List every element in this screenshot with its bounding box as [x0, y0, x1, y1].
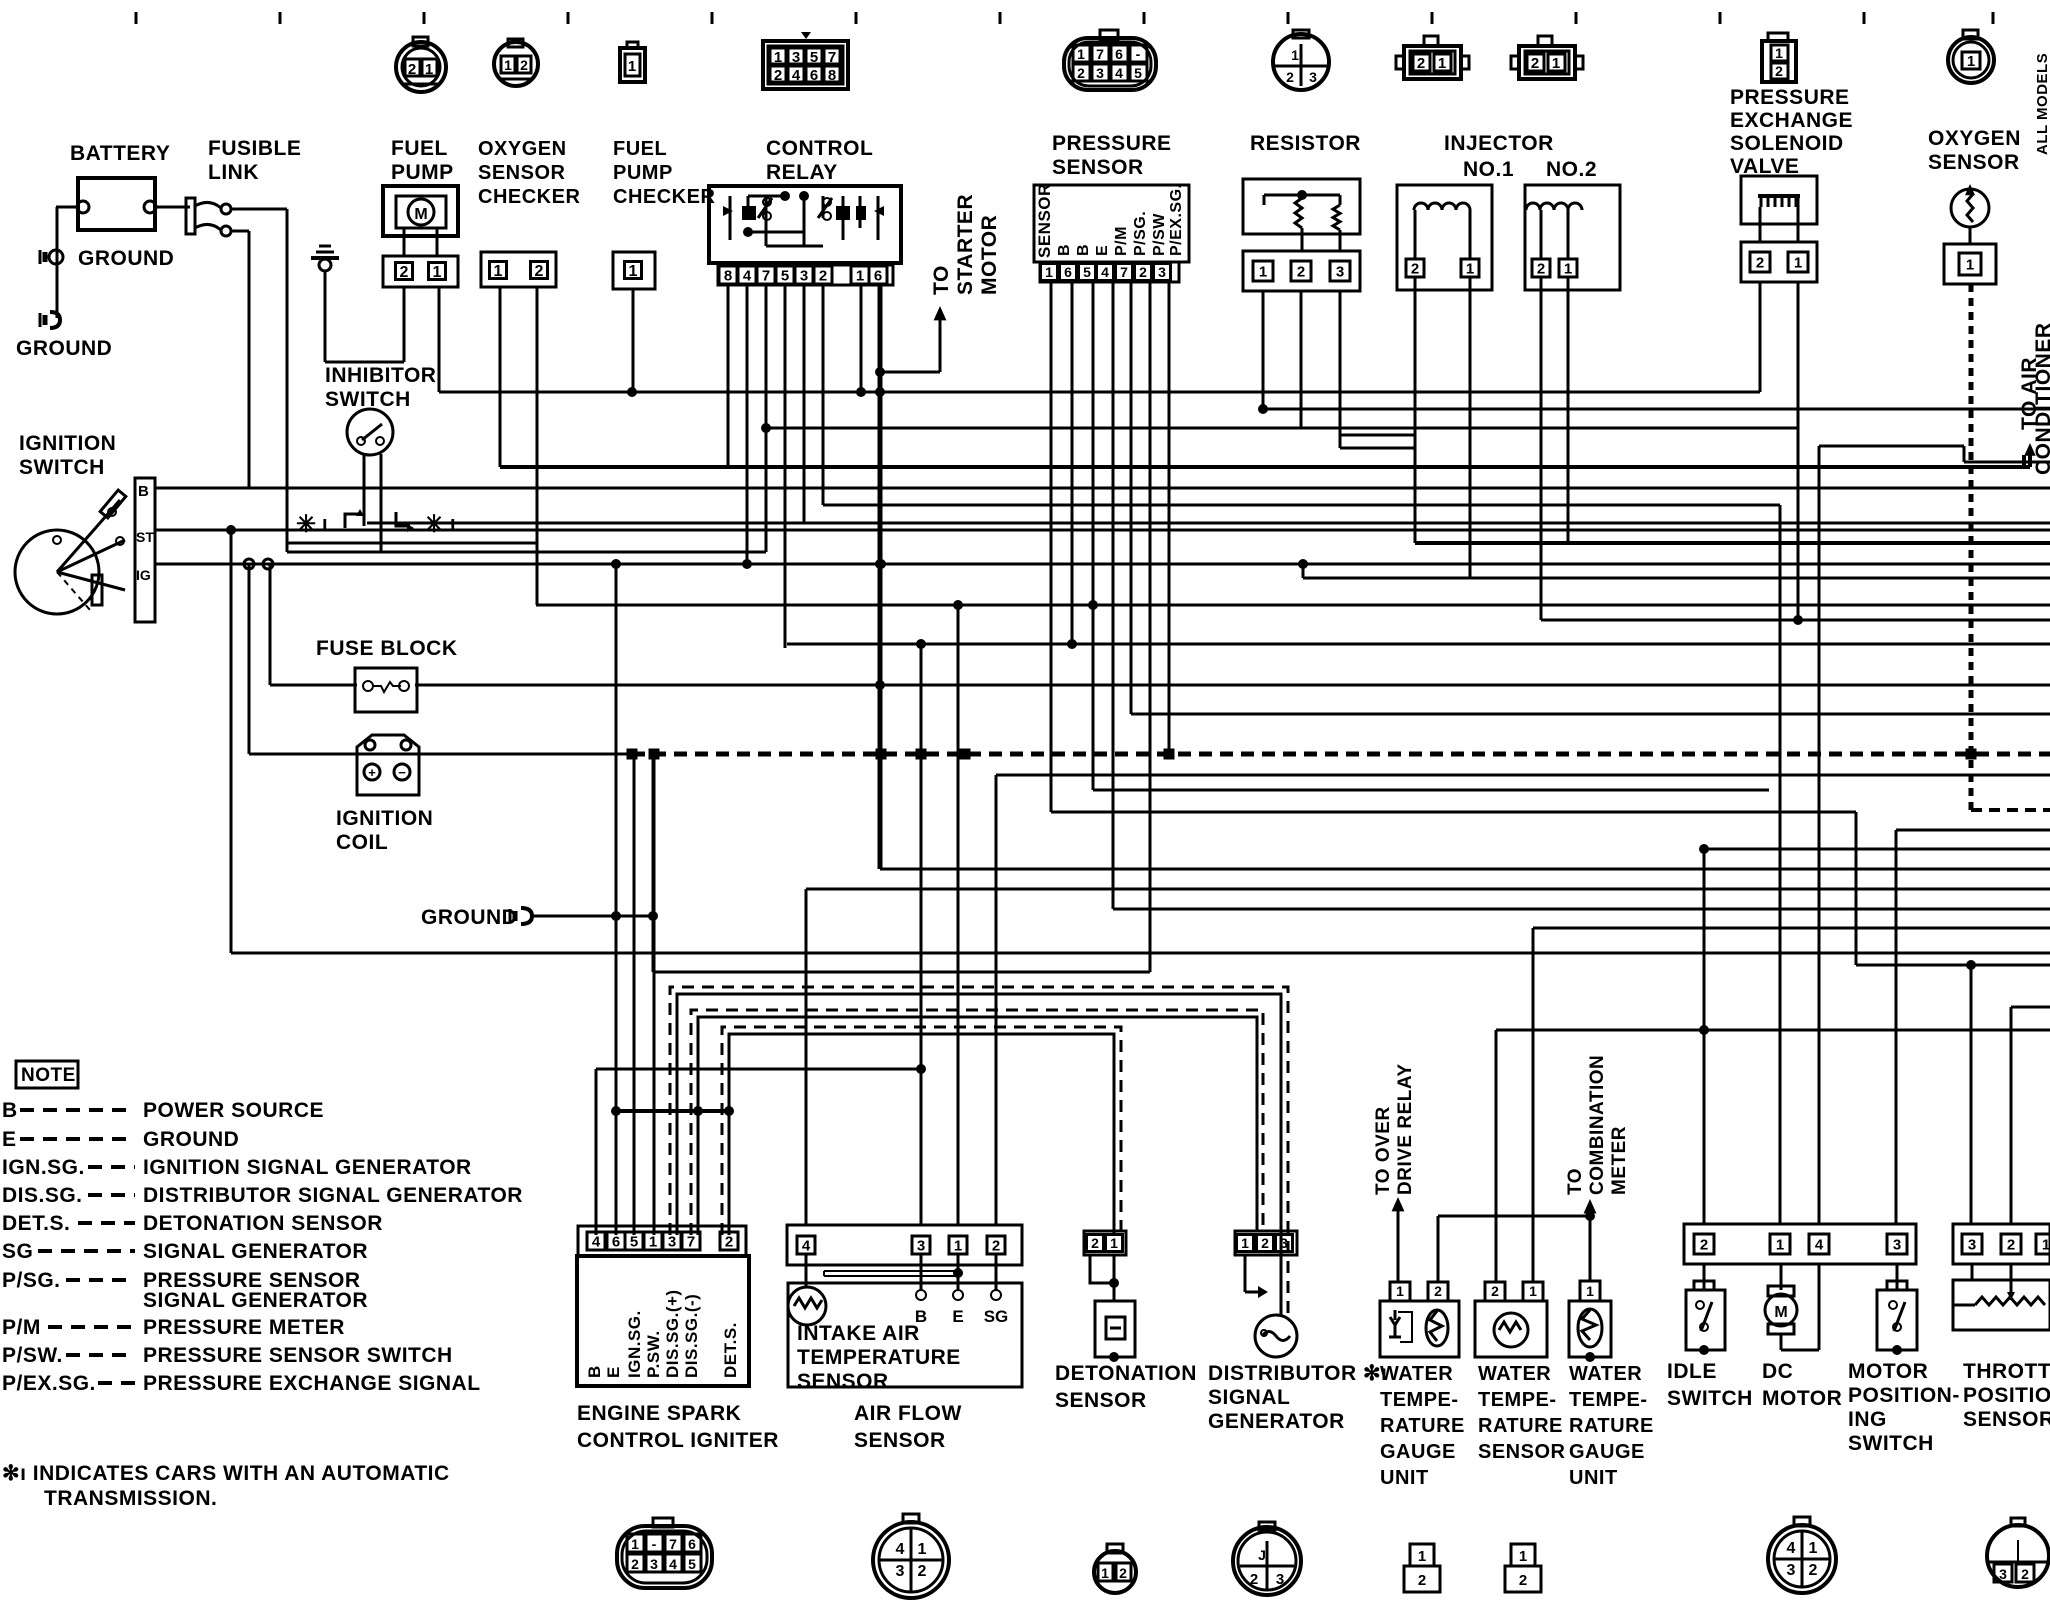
svg-text:SIGNAL: SIGNAL: [1208, 1386, 1290, 1409]
svg-text:3: 3: [1787, 1562, 1796, 1579]
svg-text:1: 1: [433, 264, 442, 281]
svg-text:6: 6: [612, 1233, 620, 1250]
svg-text:2: 2: [400, 264, 409, 281]
svg-text:1: 1: [1438, 55, 1446, 72]
svg-text:AIR FLOW: AIR FLOW: [854, 1402, 962, 1425]
svg-text:GROUND: GROUND: [16, 337, 112, 360]
svg-text:E: E: [2, 1128, 17, 1151]
svg-text:B: B: [585, 1365, 604, 1378]
svg-text:DIS.SG.(+): DIS.SG.(+): [663, 1289, 682, 1378]
svg-text:SENSOR: SENSOR: [1928, 151, 2020, 174]
svg-text:1: 1: [1259, 263, 1267, 280]
svg-text:2: 2: [1809, 1562, 1818, 1579]
svg-text:1: 1: [1396, 1283, 1404, 1299]
svg-text:+: +: [368, 765, 376, 780]
svg-text:✳: ✳: [424, 511, 444, 538]
svg-text:3: 3: [1158, 264, 1166, 280]
svg-text:P/EX.SG.: P/EX.SG.: [1168, 184, 1185, 256]
svg-text:1: 1: [1291, 47, 1299, 63]
svg-text:TO OVER: TO OVER: [1373, 1106, 1394, 1195]
svg-text:RATURE: RATURE: [1478, 1415, 1563, 1437]
svg-text:6: 6: [810, 67, 818, 84]
svg-text:GENERATOR: GENERATOR: [1208, 1410, 1345, 1433]
svg-text:✳: ✳: [296, 511, 316, 538]
svg-text:6: 6: [688, 1536, 696, 1552]
svg-text:DC: DC: [1762, 1360, 1793, 1383]
svg-text:TEMPE-: TEMPE-: [1478, 1389, 1557, 1411]
svg-text:SENSOR: SENSOR: [1478, 1441, 1566, 1463]
svg-text:TRANSMISSION.: TRANSMISSION.: [44, 1487, 217, 1510]
svg-text:INTAKE AIR: INTAKE AIR: [797, 1322, 920, 1345]
svg-text:2: 2: [1417, 55, 1425, 72]
svg-text:1: 1: [1564, 260, 1572, 277]
svg-text:4: 4: [802, 1237, 811, 1254]
svg-text:NO.1: NO.1: [1463, 158, 1514, 181]
svg-text:8: 8: [724, 267, 732, 284]
svg-text:TEMPE-: TEMPE-: [1380, 1389, 1459, 1411]
svg-text:ı: ı: [322, 513, 328, 535]
svg-text:SENSOR: SENSOR: [854, 1429, 946, 1452]
svg-text:-: -: [652, 1536, 657, 1552]
svg-text:ING: ING: [1848, 1408, 1887, 1431]
svg-text:DIS.SG.(-): DIS.SG.(-): [682, 1294, 701, 1378]
svg-text:1: 1: [1552, 55, 1560, 72]
svg-text:SWITCH: SWITCH: [325, 388, 411, 411]
svg-text:3: 3: [1096, 65, 1104, 81]
svg-text:INJECTOR: INJECTOR: [1444, 132, 1554, 155]
svg-text:SG: SG: [984, 1307, 1009, 1326]
svg-text:1: 1: [2042, 1236, 2050, 1253]
svg-text:1: 1: [1101, 1565, 1109, 1581]
svg-text:UNIT: UNIT: [1380, 1467, 1429, 1489]
svg-text:ı: ı: [450, 513, 456, 535]
svg-text:2: 2: [1286, 69, 1294, 85]
svg-text:WATER: WATER: [1380, 1363, 1453, 1385]
svg-text:2: 2: [1434, 1283, 1442, 1299]
svg-text:2: 2: [1091, 1235, 1099, 1251]
svg-text:J: J: [1258, 1547, 1266, 1563]
svg-text:IG: IG: [136, 567, 151, 583]
svg-text:2: 2: [819, 267, 827, 284]
svg-text:1: 1: [1077, 46, 1085, 62]
svg-text:2: 2: [1250, 1571, 1258, 1588]
svg-text:SOLENOID: SOLENOID: [1730, 132, 1844, 155]
svg-text:P/SW: P/SW: [1151, 213, 1168, 256]
svg-text:6: 6: [874, 267, 882, 284]
svg-text:POWER SOURCE: POWER SOURCE: [143, 1099, 324, 1122]
svg-text:FUSIBLE: FUSIBLE: [208, 137, 301, 160]
svg-text:3: 3: [1336, 263, 1344, 280]
svg-text:3: 3: [1309, 69, 1317, 85]
svg-text:2: 2: [1537, 260, 1545, 277]
svg-text:2: 2: [1297, 263, 1305, 280]
svg-text:1: 1: [494, 263, 503, 280]
svg-text:DISTRIBUTOR ✻ı: DISTRIBUTOR ✻ı: [1208, 1362, 1387, 1385]
svg-text:2: 2: [1775, 63, 1783, 79]
svg-text:2: 2: [1491, 1283, 1499, 1299]
svg-text:5: 5: [810, 49, 818, 66]
svg-text:E: E: [1094, 245, 1111, 256]
svg-text:5: 5: [688, 1556, 696, 1572]
svg-text:SWITCH: SWITCH: [1667, 1387, 1753, 1410]
svg-text:GROUND: GROUND: [143, 1128, 239, 1151]
svg-text:P/SG.: P/SG.: [2, 1269, 61, 1292]
svg-text:5: 5: [1134, 65, 1142, 81]
svg-text:IGNITION: IGNITION: [19, 432, 116, 455]
svg-text:1: 1: [649, 1233, 657, 1250]
svg-text:1: 1: [504, 57, 512, 73]
svg-text:GAUGE: GAUGE: [1380, 1441, 1456, 1463]
svg-text:SENSOR: SENSOR: [478, 162, 566, 184]
svg-text:2: 2: [520, 57, 528, 73]
svg-text:SIGNAL GENERATOR: SIGNAL GENERATOR: [143, 1240, 368, 1263]
svg-text:2: 2: [918, 1563, 927, 1580]
svg-text:MOTOR: MOTOR: [1848, 1360, 1928, 1383]
svg-text:FUEL: FUEL: [391, 137, 448, 160]
svg-text:4: 4: [743, 267, 752, 284]
svg-text:SENSOR: SENSOR: [1052, 156, 1144, 179]
svg-text:3: 3: [650, 1556, 658, 1572]
svg-text:2: 2: [1756, 254, 1764, 271]
svg-text:PRESSURE METER: PRESSURE METER: [143, 1316, 345, 1339]
svg-text:5: 5: [781, 267, 789, 284]
svg-text:-: -: [1136, 46, 1141, 62]
svg-text:FUSE BLOCK: FUSE BLOCK: [316, 637, 458, 660]
svg-text:SENSOR: SENSOR: [1963, 1408, 2050, 1431]
svg-text:DET.S.: DET.S.: [2, 1212, 70, 1235]
svg-text:1: 1: [1776, 1236, 1784, 1253]
svg-text:1: 1: [1110, 1235, 1118, 1251]
svg-text:IGNITION: IGNITION: [336, 807, 433, 830]
svg-text:OXYGEN: OXYGEN: [1928, 127, 2021, 150]
svg-text:B: B: [138, 483, 149, 500]
svg-text:4: 4: [1787, 1540, 1796, 1557]
svg-text:M: M: [414, 206, 427, 223]
svg-text:PRESSURE: PRESSURE: [1052, 132, 1172, 155]
svg-text:B: B: [1075, 244, 1092, 256]
svg-text:IDLE: IDLE: [1667, 1360, 1717, 1383]
svg-text:CONTROL IGNITER: CONTROL IGNITER: [577, 1429, 779, 1452]
svg-text:WATER: WATER: [1478, 1363, 1551, 1385]
svg-text:TO: TO: [930, 265, 953, 295]
svg-text:2: 2: [408, 61, 416, 78]
svg-text:PUMP: PUMP: [613, 162, 673, 184]
svg-text:1: 1: [1966, 256, 1974, 273]
svg-text:SIGNAL GENERATOR: SIGNAL GENERATOR: [143, 1289, 368, 1312]
svg-text:1: 1: [1045, 264, 1053, 280]
svg-text:3: 3: [1280, 1235, 1288, 1251]
svg-text:PUMP: PUMP: [391, 161, 454, 184]
svg-text:COMBINATION: COMBINATION: [1587, 1055, 1608, 1195]
svg-text:RELAY: RELAY: [766, 161, 838, 184]
svg-text:3: 3: [1999, 1566, 2007, 1582]
svg-text:4: 4: [896, 1541, 905, 1558]
svg-text:2: 2: [1119, 1565, 1127, 1581]
svg-text:1: 1: [918, 1541, 927, 1558]
svg-text:3: 3: [668, 1233, 676, 1250]
svg-text:2: 2: [1700, 1236, 1708, 1253]
svg-text:RESISTOR: RESISTOR: [1250, 132, 1361, 155]
svg-text:5: 5: [630, 1233, 638, 1250]
svg-text:EXCHANGE: EXCHANGE: [1730, 109, 1853, 132]
svg-text:CHECKER: CHECKER: [478, 186, 580, 208]
svg-text:IGNITION SIGNAL GENERATOR: IGNITION SIGNAL GENERATOR: [143, 1156, 472, 1179]
svg-text:METER: METER: [1609, 1126, 1630, 1195]
svg-text:WATER: WATER: [1569, 1363, 1642, 1385]
svg-text:6: 6: [1115, 46, 1123, 62]
svg-text:7: 7: [669, 1536, 677, 1552]
svg-text:−: −: [398, 765, 406, 780]
svg-text:7: 7: [1096, 46, 1104, 62]
svg-text:SENSOR: SENSOR: [797, 1370, 889, 1393]
svg-text:SENSOR: SENSOR: [1035, 183, 1054, 258]
svg-text:2: 2: [535, 263, 544, 280]
svg-text:7: 7: [687, 1233, 695, 1250]
svg-text:P/M: P/M: [2, 1316, 41, 1339]
svg-text:CONDITIONER: CONDITIONER: [2032, 323, 2050, 476]
svg-text:CONTROL: CONTROL: [766, 137, 873, 160]
svg-text:UNIT: UNIT: [1569, 1467, 1618, 1489]
svg-text:E: E: [952, 1307, 963, 1326]
svg-text:1: 1: [1809, 1540, 1818, 1557]
svg-text:2: 2: [1077, 65, 1085, 81]
svg-text:3: 3: [1893, 1236, 1901, 1253]
svg-text:RATURE: RATURE: [1380, 1415, 1465, 1437]
svg-text:IGN.SG.: IGN.SG.: [625, 1310, 644, 1378]
svg-text:4: 4: [1101, 264, 1109, 280]
svg-text:RATURE: RATURE: [1569, 1415, 1654, 1437]
svg-text:7: 7: [828, 49, 836, 66]
svg-text:✻ı INDICATES CARS WITH AN: ✻ı INDICATES CARS WITH AN AUTOMATIC: [2, 1462, 450, 1485]
svg-text:B: B: [1056, 244, 1073, 256]
svg-text:4: 4: [592, 1233, 601, 1250]
svg-text:1: 1: [629, 263, 638, 280]
svg-text:2: 2: [631, 1556, 639, 1572]
svg-text:1: 1: [774, 49, 782, 66]
svg-text:INHIBITOR: INHIBITOR: [325, 364, 436, 387]
svg-text:GAUGE: GAUGE: [1569, 1441, 1645, 1463]
svg-text:2: 2: [992, 1237, 1000, 1254]
svg-text:SWITCH: SWITCH: [19, 456, 105, 479]
svg-text:PRESSURE: PRESSURE: [1730, 86, 1850, 109]
svg-text:SWITCH: SWITCH: [1848, 1432, 1934, 1455]
svg-text:1: 1: [628, 58, 636, 75]
svg-text:POSITION: POSITION: [1963, 1384, 2050, 1407]
svg-text:STARTER: STARTER: [954, 194, 977, 295]
svg-text:3: 3: [1968, 1236, 1976, 1253]
svg-text:DETONATION: DETONATION: [1055, 1362, 1197, 1385]
svg-text:2: 2: [1411, 260, 1419, 277]
svg-text:B: B: [2, 1099, 18, 1122]
svg-text:1: 1: [631, 1536, 639, 1552]
svg-text:CHECKER: CHECKER: [613, 186, 715, 208]
svg-text:NOTE: NOTE: [21, 1065, 76, 1086]
svg-text:1: 1: [1967, 53, 1975, 70]
svg-text:1: 1: [856, 267, 864, 284]
svg-text:1: 1: [1466, 260, 1474, 277]
svg-text:7: 7: [1120, 264, 1128, 280]
svg-text:2: 2: [774, 67, 782, 84]
svg-text:IGN.SG.: IGN.SG.: [2, 1156, 85, 1179]
svg-text:ST: ST: [136, 529, 154, 545]
svg-text:OXYGEN: OXYGEN: [478, 138, 567, 160]
svg-text:GROUND: GROUND: [78, 247, 174, 270]
svg-text:2: 2: [1139, 264, 1147, 280]
svg-text:P.SW.: P.SW.: [644, 1330, 663, 1378]
svg-text:TEMPERATURE: TEMPERATURE: [797, 1346, 961, 1369]
svg-text:2: 2: [1519, 1572, 1527, 1589]
svg-text:M: M: [1774, 1304, 1787, 1321]
svg-text:1: 1: [1775, 45, 1783, 61]
svg-text:1: 1: [1529, 1283, 1537, 1299]
svg-text:P/SG.: P/SG.: [1132, 211, 1149, 256]
svg-text:TO: TO: [1565, 1168, 1586, 1195]
svg-text:DISTRIBUTOR SIGNAL GENERATOR: DISTRIBUTOR SIGNAL GENERATOR: [143, 1184, 523, 1207]
svg-text:3: 3: [792, 49, 800, 66]
svg-text:8: 8: [828, 67, 836, 84]
svg-text:PRESSURE SENSOR SWITCH: PRESSURE SENSOR SWITCH: [143, 1344, 453, 1367]
svg-text:MOTOR: MOTOR: [1762, 1387, 1842, 1410]
svg-text:2: 2: [1261, 1235, 1269, 1251]
svg-text:BATTERY: BATTERY: [70, 142, 170, 165]
svg-text:2: 2: [1531, 55, 1539, 72]
svg-text:COIL: COIL: [336, 831, 388, 854]
svg-text:2: 2: [2007, 1236, 2015, 1253]
svg-text:7: 7: [762, 267, 770, 284]
svg-text:FUEL: FUEL: [613, 138, 667, 160]
svg-text:2: 2: [725, 1233, 733, 1250]
svg-text:MOTOR: MOTOR: [978, 215, 1001, 295]
svg-text:2: 2: [1418, 1572, 1426, 1589]
svg-text:THROTTL: THROTTL: [1963, 1360, 2050, 1383]
svg-text:SG: SG: [2, 1240, 33, 1263]
svg-text:ALL MODELS: ALL MODELS: [2034, 53, 2050, 155]
svg-text:P/SW.: P/SW.: [2, 1344, 63, 1367]
svg-text:DETONATION SENSOR: DETONATION SENSOR: [143, 1212, 383, 1235]
svg-text:6: 6: [1064, 264, 1072, 280]
svg-text:4: 4: [792, 67, 801, 84]
svg-text:1: 1: [1586, 1283, 1594, 1299]
svg-text:3: 3: [896, 1563, 905, 1580]
svg-text:1: 1: [1418, 1548, 1426, 1565]
svg-text:3: 3: [917, 1237, 925, 1254]
svg-text:DRIVE RELAY: DRIVE RELAY: [1395, 1064, 1416, 1196]
svg-text:ENGINE SPARK: ENGINE SPARK: [577, 1402, 741, 1425]
svg-text:PRESSURE EXCHANGE SIGNAL: PRESSURE EXCHANGE SIGNAL: [143, 1372, 481, 1395]
svg-text:DIS.SG.: DIS.SG.: [2, 1184, 83, 1207]
svg-text:SENSOR: SENSOR: [1055, 1389, 1147, 1412]
svg-text:GROUND: GROUND: [421, 906, 517, 929]
svg-text:1: 1: [954, 1237, 962, 1254]
svg-text:LINK: LINK: [208, 161, 259, 184]
svg-text:4: 4: [1115, 65, 1123, 81]
svg-text:POSITION-: POSITION-: [1848, 1384, 1960, 1407]
svg-text:1: 1: [425, 61, 433, 78]
svg-text:E: E: [604, 1366, 623, 1378]
svg-text:1: 1: [1794, 254, 1802, 271]
svg-text:NO.2: NO.2: [1546, 158, 1597, 181]
svg-text:P/EX.SG.: P/EX.SG.: [2, 1372, 96, 1395]
svg-text:P/M: P/M: [1113, 226, 1130, 256]
svg-text:3: 3: [800, 267, 808, 284]
svg-text:3: 3: [1276, 1571, 1284, 1588]
svg-text:2: 2: [2021, 1566, 2029, 1582]
svg-text:1: 1: [1519, 1548, 1527, 1565]
svg-text:5: 5: [1083, 264, 1091, 280]
svg-text:TEMPE-: TEMPE-: [1569, 1389, 1648, 1411]
svg-text:4: 4: [1815, 1236, 1824, 1253]
svg-text:1: 1: [1241, 1235, 1249, 1251]
svg-text:4: 4: [669, 1556, 677, 1572]
svg-text:DET.S.: DET.S.: [721, 1322, 740, 1378]
